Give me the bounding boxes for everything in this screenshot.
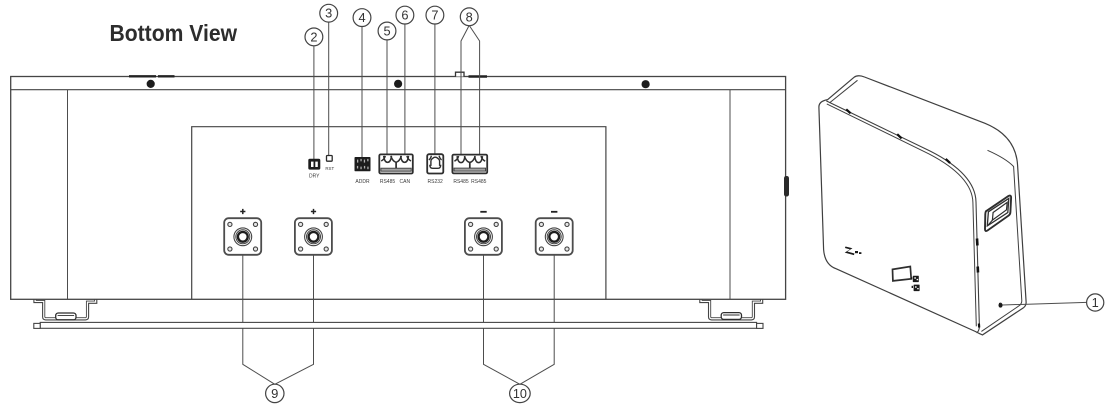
leader line 4	[361, 27, 363, 158]
3D cert marks	[911, 276, 920, 291]
ADDR DIP switch	[355, 157, 371, 171]
svg-text:7: 7	[431, 8, 438, 23]
leader fork 9	[243, 255, 314, 384]
plus sign P2	[311, 209, 316, 214]
svg-text:CAN: CAN	[400, 179, 411, 185]
leader line 3	[328, 22, 330, 156]
leader line 5	[386, 40, 388, 155]
callout circle 5	[378, 22, 396, 40]
svg-text:1: 1	[1092, 295, 1099, 310]
3D seam screw tick 1	[846, 109, 850, 113]
callout circle 7	[426, 6, 444, 24]
base rail left end block	[34, 323, 40, 328]
svg-text:2: 2	[310, 29, 317, 44]
left inner edge line	[67, 90, 69, 300]
callout circle 3	[320, 4, 338, 22]
leader line 7	[434, 24, 436, 154]
3D handle	[985, 196, 1011, 231]
screw S2	[394, 80, 402, 88]
RS232 jack	[427, 154, 443, 173]
terminal P4	[536, 218, 573, 255]
3D front lid edge	[826, 101, 979, 333]
right inner edge line	[729, 90, 731, 300]
svg-text:ADDR: ADDR	[355, 179, 370, 185]
terminal P2	[295, 218, 332, 255]
svg-text:RS485: RS485	[380, 179, 396, 185]
3D right edge screw tick 1	[976, 239, 979, 246]
svg-text:10: 10	[513, 387, 527, 401]
3D front lid seam	[827, 104, 977, 326]
left foot bracket	[34, 299, 97, 320]
3D seam screw tick 3	[946, 159, 950, 163]
right edge tab	[784, 176, 789, 197]
callout circle 4	[353, 9, 371, 27]
top edge notch	[456, 72, 465, 76]
svg-text:RS232: RS232	[428, 179, 444, 185]
svg-text:5: 5	[383, 24, 390, 39]
svg-text:RST: RST	[325, 166, 334, 171]
leader line 6	[404, 24, 406, 155]
3D right edge screw tick 2	[976, 267, 979, 273]
3D label plate	[893, 267, 912, 281]
connector panel	[192, 127, 606, 300]
svg-text:8: 8	[466, 9, 473, 24]
RJ45 jack RS485/CAN	[379, 154, 413, 173]
callout circle 9	[266, 384, 284, 402]
3D seam screw tick 2	[897, 134, 901, 138]
plus sign P1	[240, 209, 245, 214]
base rail right end block	[757, 323, 763, 328]
svg-text:4: 4	[358, 10, 365, 25]
RJ45 jack RS485/RS485	[452, 155, 487, 174]
leader fork 8	[461, 25, 480, 154]
top edge dash right	[469, 75, 488, 77]
top seam line	[11, 89, 786, 91]
terminal P1	[224, 218, 261, 255]
svg-text:6: 6	[401, 8, 408, 23]
3D bottom screw	[999, 303, 1003, 307]
callout circle 2	[305, 28, 323, 46]
3D logo mark	[845, 247, 862, 256]
minus sign P3	[480, 211, 486, 213]
svg-text:Bottom View: Bottom View	[110, 20, 238, 46]
top edge dash left pair	[129, 75, 175, 77]
callout circle 6	[396, 6, 414, 24]
leader line 1	[1003, 302, 1087, 305]
leader fork 10	[484, 255, 555, 384]
svg-text:RS485: RS485	[453, 179, 469, 185]
callout circle 1	[1087, 294, 1104, 311]
right foot slot	[721, 313, 741, 320]
callout circle 10	[510, 384, 531, 402]
base rail	[40, 322, 756, 328]
left foot slot	[56, 313, 76, 320]
svg-text:DRY: DRY	[309, 174, 320, 180]
screw S1	[147, 80, 155, 88]
screw S3	[642, 80, 650, 88]
DRY connector	[308, 159, 320, 170]
3D top lid left seam	[830, 80, 858, 103]
callout circle 8	[460, 8, 478, 26]
3D view outer silhouette	[819, 76, 1026, 335]
right foot bracket	[700, 299, 763, 320]
svg-text:3: 3	[325, 6, 332, 21]
svg-text:RS485: RS485	[471, 179, 487, 185]
terminal P3	[465, 218, 502, 255]
device body outline	[11, 77, 786, 300]
svg-text:9: 9	[271, 386, 278, 401]
3D right edge screw tick 3	[978, 324, 980, 328]
3D top/side boundary seam	[981, 150, 1021, 331]
RST button	[327, 156, 333, 162]
leader line 2	[313, 46, 315, 159]
minus sign P4	[551, 211, 557, 213]
